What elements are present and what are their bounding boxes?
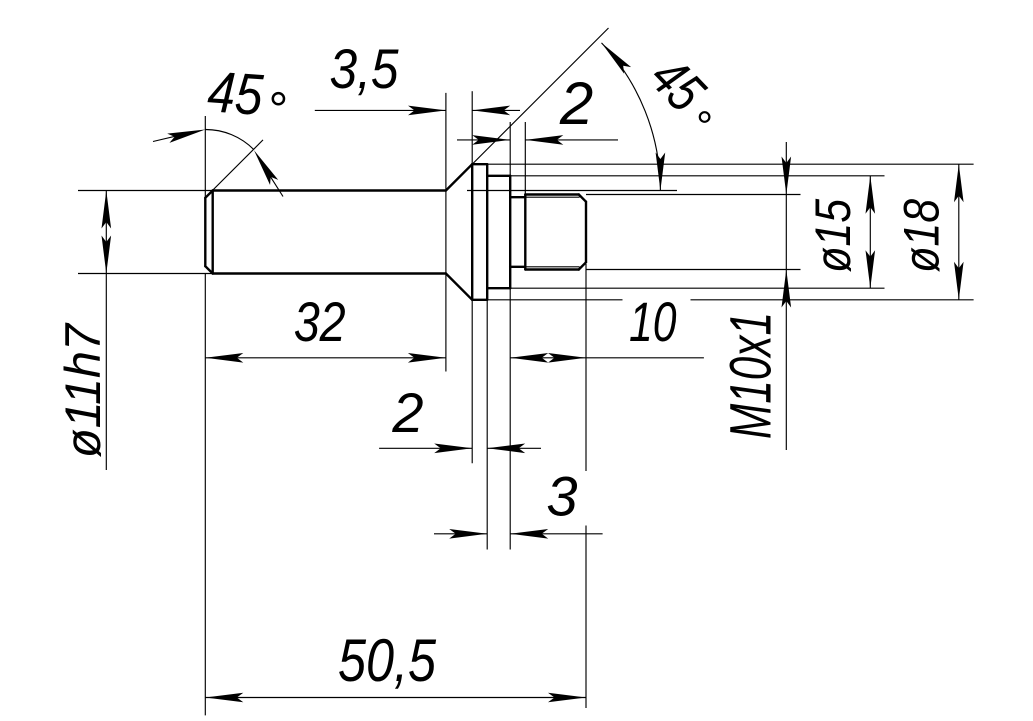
dimension line 2 bottom right part [487, 447, 541, 449]
extension line x586 lower segment [585, 526, 587, 709]
svg-text:2: 2 [391, 381, 423, 444]
part outline: thread major top [525, 193, 579, 195]
part outline: left end top chamfer [205, 191, 212, 198]
extension line x205 [204, 274, 206, 716]
arrow 3,5 right [472, 106, 510, 116]
degree circle left [273, 93, 284, 104]
arrow 32 right [408, 353, 446, 363]
arrow d15 down [866, 250, 876, 288]
part outline: cone top 45deg [446, 164, 472, 190]
arrow 2 top right [525, 135, 563, 145]
extension line x510 upper [509, 122, 511, 176]
right 45deg cone extension line [446, 28, 609, 191]
part outline: flange d18 top [472, 163, 487, 165]
arrow d11 down [102, 236, 112, 274]
extension line x472 upper [471, 91, 473, 164]
dimension line d15 [869, 176, 871, 288]
part outline: neck top [510, 196, 525, 198]
left 45deg vertex vertical line [204, 116, 206, 197]
dimension line 3 left part [434, 533, 487, 535]
svg-text:10: 10 [629, 290, 677, 353]
arrow 2 top left [472, 135, 510, 145]
arrow d15 up [866, 176, 876, 214]
arrow 50,5 left [205, 693, 243, 703]
extension line x446 [445, 93, 447, 372]
left 45deg chamfer extension line [206, 140, 263, 197]
part outline: step face d15 to neck [509, 176, 511, 288]
extension line M10 bottom [586, 269, 801, 271]
part outline: shaft d11 bottom [213, 272, 446, 274]
extension line d15 top [510, 175, 884, 177]
left 45deg arc [205, 129, 253, 149]
svg-text:3,5: 3,5 [330, 37, 400, 100]
arrow M10 bottom [782, 270, 792, 308]
arrow d18 down [954, 262, 964, 300]
part outline: chamfer depth line [211, 191, 213, 274]
right 45deg arc [602, 43, 661, 191]
svg-text:45: 45 [206, 59, 266, 128]
arrow 2 bottom right [487, 444, 525, 454]
part outline: shaft d11 top [213, 189, 446, 191]
dimension line 2 top left part [457, 139, 510, 141]
left 45deg arrow right [250, 148, 278, 185]
extension line x510 lower [509, 288, 511, 549]
part outline: neck bottom [510, 266, 525, 268]
arrow M10 top [782, 157, 792, 195]
arrow d18 up [954, 164, 964, 202]
dimension line d11h7 [105, 191, 107, 471]
arrow 50,5 right [548, 693, 586, 703]
extension line d18 bottom right part [691, 299, 974, 301]
dimension line 3,5 right part [472, 109, 520, 111]
part outline: flange right face [486, 164, 488, 300]
extension line x586 upper segment [585, 264, 587, 471]
dimension line 2 top right part [525, 139, 618, 141]
dimension line 3 right part [510, 533, 602, 535]
extension line x525 upper [524, 122, 526, 195]
svg-text:ø15: ø15 [805, 199, 861, 273]
thread root line bottom [525, 266, 579, 268]
degree circle right [700, 112, 710, 122]
svg-text:M10x1: M10x1 [719, 312, 784, 439]
part outline: thread end chamfer top [579, 195, 586, 202]
extension line d18 top [472, 163, 973, 165]
arrow 10 left [510, 353, 548, 363]
arrow 32 left [205, 353, 243, 363]
right 45deg arrow lower [656, 153, 666, 191]
dimension line 10 [510, 357, 704, 359]
arrow 2 bottom left [434, 444, 472, 454]
dimension line 50,5 [205, 697, 586, 699]
svg-text:3: 3 [546, 464, 577, 527]
right 45deg horizontal extension line [467, 190, 677, 192]
dimension line M10x1 [785, 142, 787, 450]
svg-text:2: 2 [559, 70, 593, 137]
dimension line d18 [958, 164, 960, 300]
arrow 3,5 left [408, 106, 446, 116]
extension line d11 bottom [78, 273, 213, 275]
extension line d15 bottom [510, 287, 884, 289]
left 45deg arrow leader left [153, 134, 185, 142]
thread root tick bottom [579, 267, 581, 270]
thread root tick top [579, 195, 581, 198]
part outline: d15 top [487, 175, 510, 177]
svg-text:32: 32 [294, 290, 346, 353]
part outline: thread start face [524, 195, 526, 270]
svg-text:ø11h7: ø11h7 [55, 322, 111, 458]
arrow 3 right [510, 529, 548, 539]
arrow 10 right [548, 353, 586, 363]
dimension line 32 [205, 357, 446, 359]
extension line x472 lower [471, 300, 473, 463]
part outline: left end bottom chamfer [205, 266, 212, 273]
svg-text:50,5: 50,5 [338, 627, 437, 694]
part outline: cone bottom 45deg [446, 274, 472, 300]
part outline: left end face [204, 198, 206, 266]
arrow 3 left [449, 529, 487, 539]
svg-text:ø18: ø18 [894, 199, 950, 273]
extension line M10 top [586, 194, 801, 196]
part outline: thread major bottom [525, 268, 579, 270]
part outline: d15 bottom [487, 287, 510, 289]
dimension line 3,5 left part [315, 109, 446, 111]
part outline: right end face [585, 202, 587, 263]
extension line d18 bottom left part [472, 299, 622, 301]
extension line x487 lower [486, 300, 488, 550]
arrow d11 up [102, 191, 112, 229]
left 45deg arrow leader right [268, 173, 283, 197]
dimension line 2 bottom left part [379, 447, 472, 449]
part outline: flange d18 bottom [472, 299, 487, 301]
extension line d11 top [78, 190, 213, 192]
part outline: flange left edge [471, 164, 473, 300]
left 45deg arrow left [167, 125, 206, 143]
part outline: thread end chamfer bottom [579, 262, 586, 269]
right 45deg arrow upper [598, 40, 631, 74]
thread root line top [525, 196, 579, 198]
